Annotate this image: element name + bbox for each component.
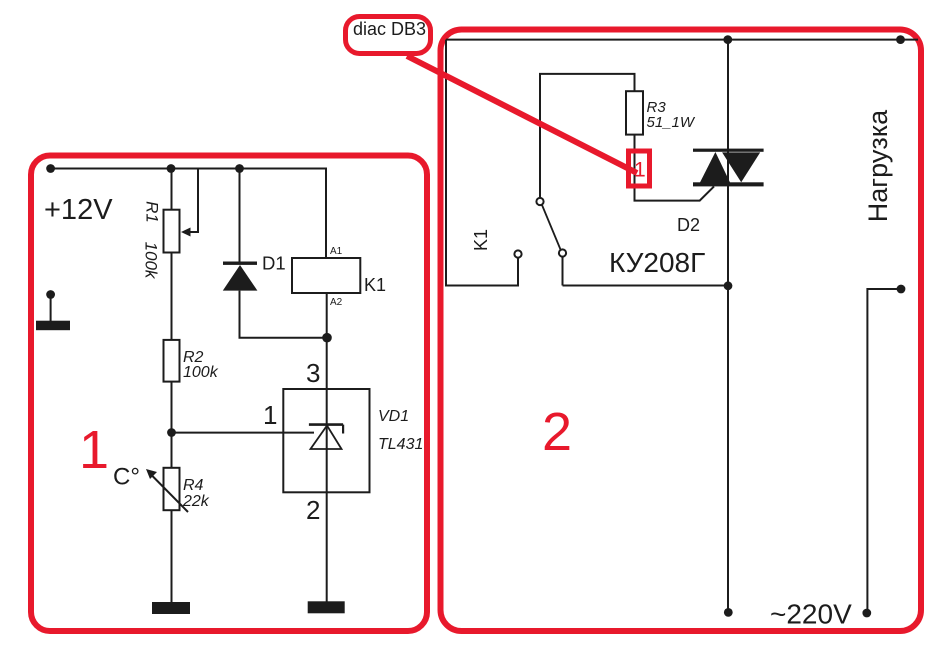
leader line from callout to diac highlight (red) (407, 56, 637, 173)
svg-text:R1: R1 (143, 201, 162, 223)
wire: switch terminal down to gate rail (562, 257, 564, 286)
node: R2/R4 divider tap (167, 428, 176, 437)
svg-text:3: 3 (306, 358, 320, 388)
wire: junction down to VD1 cathode (pin 3) (326, 338, 328, 389)
triac D2 symbol (693, 149, 764, 187)
switch arm (contact blade) (542, 205, 561, 250)
wire: R3 bottom through diac position to triac gate (635, 135, 715, 201)
node: bottom mains terminal (left) (724, 608, 733, 617)
IC VD1 TL431 box (283, 389, 369, 492)
svg-text:A1: A1 (330, 246, 343, 257)
resistor R1 100k (potentiometer body) (164, 210, 180, 253)
label: R2 100k (italic) (183, 349, 219, 381)
relay contact K1 terminal (left, open circle) (514, 250, 521, 257)
node: triac anode junction on top rail (723, 35, 732, 44)
svg-text:КУ208Г: КУ208Г (609, 247, 705, 278)
svg-text:R4: R4 (183, 477, 204, 494)
svg-text:2: 2 (542, 402, 572, 462)
ground (R4 bottom) (152, 602, 190, 614)
svg-text:51_1W: 51_1W (647, 114, 696, 131)
wire: +12V top rail (51, 169, 326, 259)
svg-text:D2: D2 (677, 215, 700, 235)
node: bottom mains terminal (right) (862, 609, 871, 618)
svg-text:100k: 100k (142, 242, 161, 280)
callout: diac DB3 (red rounded bubble) (346, 17, 431, 54)
svg-text:diac DB3: diac DB3 (353, 19, 426, 39)
wire: rail to R1 top (171, 169, 173, 211)
resistor R2 body (164, 340, 180, 382)
svg-text:1: 1 (79, 420, 109, 480)
wire: top mains rail of section 2 (446, 39, 918, 41)
node: D1/K1/VD1 junction (322, 333, 332, 343)
label: VD1 TL431 (italic) (378, 408, 423, 453)
node: R1 top junction (167, 164, 176, 173)
node: load terminal (right branch top) (897, 285, 906, 294)
node: D1 branch junction (235, 164, 244, 173)
wire: left branch down to relay contact (446, 40, 518, 286)
svg-text:TL431: TL431 (378, 436, 423, 453)
wire: tap to VD1 pin 1 (172, 432, 315, 434)
node: load terminal on top rail (896, 35, 905, 44)
svg-text:+12V: +12V (44, 194, 113, 226)
svg-text:VD1: VD1 (378, 408, 409, 425)
svg-text:A2: A2 (330, 297, 343, 308)
section 2 boundary (red rounded frame) (441, 30, 922, 632)
svg-text:C°: C° (113, 464, 140, 491)
thermistor R4 body (164, 468, 180, 510)
wire: R2 bottom to tap node (171, 382, 173, 469)
wire: loop from switch pivot up and over to R3 top (540, 74, 635, 198)
highlight box: diac DB3 location (red) (629, 151, 650, 186)
ground (left, supply return) (36, 290, 70, 330)
wire: R4 bottom to ground (171, 510, 173, 603)
switch moving terminal (open circle) (559, 249, 566, 256)
svg-text:Нагрузка: Нагрузка (863, 109, 893, 222)
label: R3 51_1W (italic) (647, 99, 696, 131)
svg-text:K1: K1 (364, 275, 386, 295)
diode D1 (cathode bar and triangle) (223, 262, 258, 291)
resistor R3 body (626, 91, 643, 134)
section 1 boundary (red rounded frame) (31, 156, 427, 632)
wire: load right branch (867, 289, 901, 613)
node: +12V rail left terminal (46, 164, 55, 173)
wire: D1 anode down and right to junction (240, 291, 328, 338)
svg-text:1: 1 (263, 400, 277, 430)
ground (VD1 pin 2) (308, 601, 345, 613)
wire: K1 bottom to junction node (326, 293, 328, 338)
TL431 internal symbol (shunt reference) (309, 389, 343, 492)
label: R4 22k (italic) (182, 477, 210, 510)
potentiometer R1 wiper arrow and return wire (181, 169, 198, 237)
node: gate rail / triac main junction (724, 281, 733, 290)
thermistor R4 diagonal arrow (146, 469, 188, 512)
wire: VD1 anode (pin 2) to ground (326, 492, 328, 602)
svg-text:2: 2 (306, 495, 320, 525)
wire: rail branch down to D1 (239, 169, 241, 263)
svg-text:D1: D1 (262, 253, 286, 274)
relay coil K1 box (292, 258, 360, 293)
wire: R1 bottom to R2 top (171, 253, 173, 341)
svg-text:K1: K1 (471, 229, 491, 251)
switch pivot terminal (open circle) (536, 198, 543, 205)
wire: triac main vertical (727, 40, 729, 612)
svg-text:22k: 22k (182, 493, 210, 510)
svg-text:~220V: ~220V (770, 599, 852, 630)
svg-text:100k: 100k (183, 364, 219, 381)
wire: gate rail to triac vertical (563, 285, 729, 287)
